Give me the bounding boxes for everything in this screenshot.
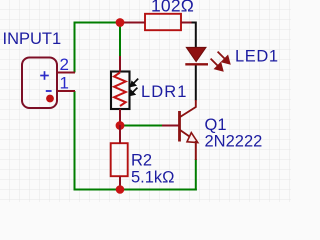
svg-text:INPUT1: INPUT1 (3, 30, 62, 48)
LED cathode bar (185, 63, 208, 65)
svg-text:Q1: Q1 (205, 116, 227, 134)
resistor R2 body (111, 143, 128, 176)
pin: R2 top (119, 125, 121, 143)
junction: top node (116, 18, 125, 27)
wire: junction down to LDR (119, 23, 121, 58)
wire: emitter to bottom rail (195, 159, 197, 191)
wire: INPUT1 pin2 net vertical up (74, 23, 76, 73)
svg-text:5.1kΩ: 5.1kΩ (131, 169, 175, 187)
junction: base node (116, 121, 125, 130)
pin: Q1 emitter lead (195, 141, 197, 160)
pin: R1 right (181, 22, 192, 24)
svg-text:1: 1 (60, 74, 69, 93)
pin: LDR1 bottom (119, 109, 121, 126)
minus sign in INPUT1 (46, 90, 52, 92)
svg-text:R2: R2 (131, 152, 152, 170)
wire: base net from LDR junction to Q1 base (122, 125, 163, 127)
LDR1 light arrow lower (130, 88, 137, 96)
pin: Q1 collector (180, 100, 196, 117)
wire: black net LED cathode to Q1 collector (195, 65, 197, 101)
resistor R1 body (145, 14, 181, 30)
LED light arrow upper (218, 52, 230, 64)
polarity dot in INPUT1 (46, 95, 54, 103)
wire: black net R1 to LED anode (191, 23, 196, 48)
plus sign in INPUT1 (40, 71, 49, 80)
LDR1 zigzag (114, 73, 126, 107)
pin 2 of INPUT1 (57, 72, 75, 74)
svg-text:LED1: LED1 (235, 48, 279, 66)
transistor Q1 base bar (178, 111, 181, 142)
junction: bottom rail node (116, 185, 125, 194)
svg-text:LDR1: LDR1 (141, 83, 188, 101)
LDR1 light arrow upper (131, 79, 138, 87)
svg-text:2N2222: 2N2222 (205, 133, 263, 151)
wire: top horizontal to junction (74, 22, 119, 24)
svg-text:102Ω: 102Ω (151, 0, 194, 16)
pin: R2 bottom (119, 176, 121, 190)
LED D1 triangle (186, 47, 206, 61)
connector J INPUT1 body (22, 58, 57, 109)
pin: LDR1 top (119, 56, 121, 72)
LED light arrow lower (211, 59, 223, 71)
photoresistor LDR1 body (111, 72, 130, 110)
svg-text:2: 2 (60, 55, 69, 74)
pin 1 of INPUT1 (57, 90, 75, 92)
wire: bottom rail (74, 189, 197, 191)
pin: Q1 emitter (180, 130, 196, 141)
Q1 emitter arrowhead (187, 133, 198, 143)
pin: R1 left (121, 22, 145, 24)
pin: Q1 base (162, 125, 179, 127)
wire: INPUT1 pin1 net vertical down (74, 91, 76, 191)
